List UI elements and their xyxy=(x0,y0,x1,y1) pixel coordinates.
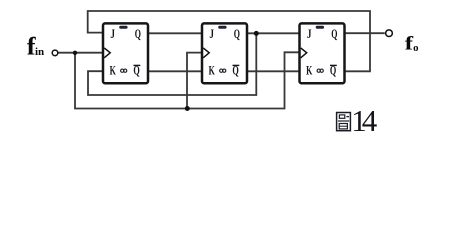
svg-text:14: 14 xyxy=(351,103,378,138)
svg-text:o: o xyxy=(413,42,419,54)
svg-text:in: in xyxy=(35,46,44,58)
